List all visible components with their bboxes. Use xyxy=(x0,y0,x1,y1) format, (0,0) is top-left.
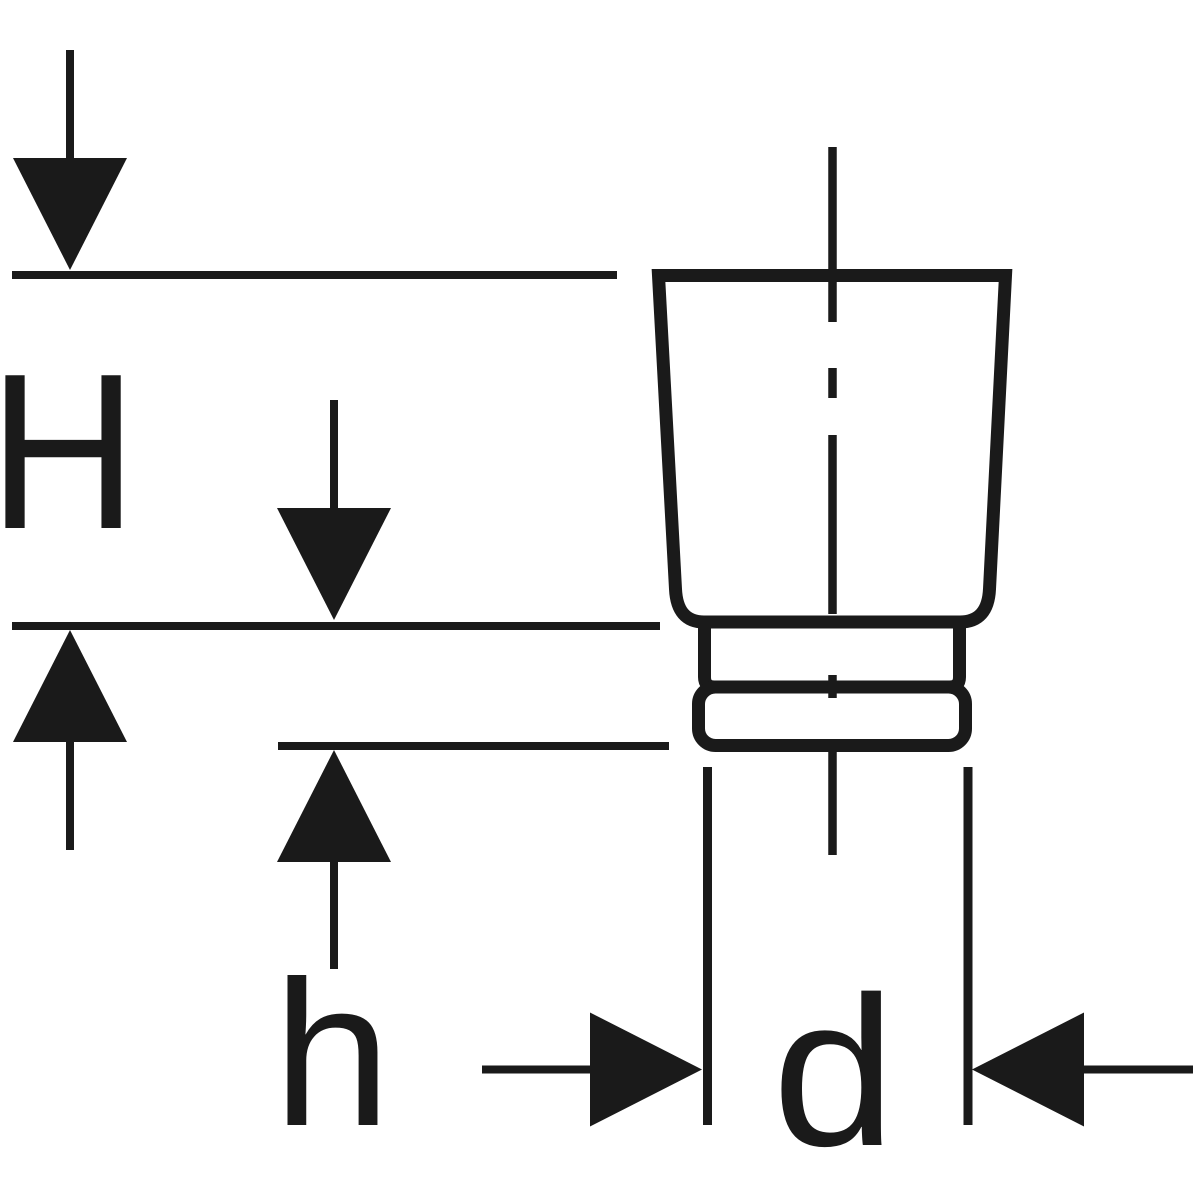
arrow up (h lower arrow) head xyxy=(277,750,391,862)
extension line d right xyxy=(964,767,973,1125)
arrow down (h upper arrow) head xyxy=(277,508,391,620)
svg-text:H: H xyxy=(0,328,138,576)
arrow up (h lower arrow) tail xyxy=(330,860,338,969)
vessel upper neck ring xyxy=(705,622,960,687)
arrow down (H upper arrow) head xyxy=(13,158,127,270)
centerline dash 2 xyxy=(828,368,837,398)
svg-text:d: d xyxy=(772,953,896,1191)
vessel body outline (tapered cup) xyxy=(659,276,1006,623)
arrow right (d left arrow) tail xyxy=(482,1066,592,1074)
arrow left (d right arrow) tail xyxy=(1082,1066,1193,1074)
arrow up (H lower arrow) tail xyxy=(66,740,74,850)
dimension line h bottom (base level) xyxy=(278,742,669,750)
dimension line H top (vessel rim level) xyxy=(12,271,617,279)
extension line d left xyxy=(703,767,712,1125)
dimension line H bottom / h top (shoulder level) xyxy=(12,622,660,630)
arrow down (h upper arrow) tail xyxy=(330,400,338,512)
centerline segment 1 xyxy=(828,147,837,322)
centerline dash 4 xyxy=(828,675,837,698)
centerline segment 5 xyxy=(828,752,837,855)
arrow left (d right arrow) head xyxy=(972,1013,1084,1127)
vessel lower base ring xyxy=(699,687,966,746)
centerline segment 3 xyxy=(828,435,837,614)
arrow up (H lower arrow) head xyxy=(13,630,127,742)
arrow down (H upper arrow) tail xyxy=(66,50,74,162)
arrow right (d left arrow) head xyxy=(590,1013,702,1127)
svg-text:h: h xyxy=(273,938,392,1170)
